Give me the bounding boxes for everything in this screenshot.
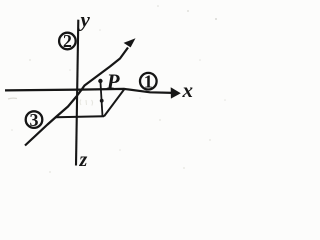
perpendicular segment from P [100, 81, 102, 117]
diagonal arrowhead [124, 38, 136, 47]
scan speck top right [215, 18, 217, 20]
faint specks [157, 5, 159, 7]
svg-text:1: 1 [144, 71, 153, 91]
svg-text:x: x [182, 78, 194, 102]
circled 1 [140, 71, 157, 91]
wire: y-z vertical axis [76, 20, 78, 166]
foot dot on plane [100, 99, 104, 103]
wire: x-axis line [5, 89, 173, 93]
circled 2 [59, 31, 76, 51]
faint scan smudge near left edge [8, 97, 17, 100]
svg-text:z: z [79, 149, 88, 171]
svg-text:P: P [106, 69, 120, 93]
paper background [0, 0, 234, 192]
plane parallelogram bottom edge [56, 116, 104, 117]
faint print-through smudges inside plane [80, 100, 93, 106]
svg-text:3: 3 [30, 110, 39, 130]
circled 3 [26, 110, 43, 130]
scan noise specks [11, 29, 226, 173]
point P dot [98, 79, 102, 83]
plane parallelogram right edge [104, 89, 124, 116]
x-axis arrowhead [171, 87, 181, 98]
svg-text:2: 2 [63, 31, 72, 51]
wire: main diagonal axis [25, 48, 128, 146]
